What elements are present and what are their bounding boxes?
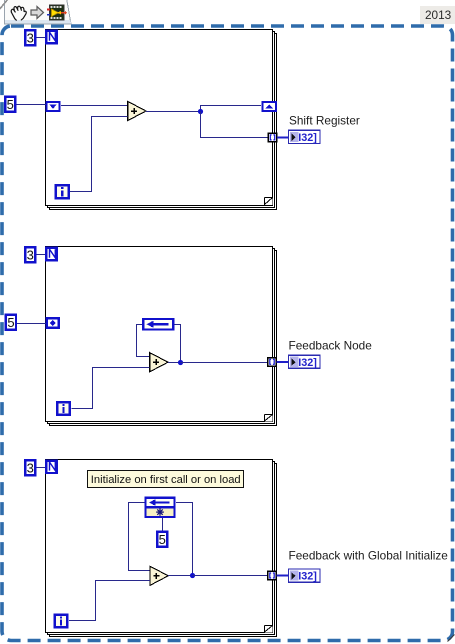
svg-text:3: 3 xyxy=(27,248,34,263)
page curl corner xyxy=(0,0,8,10)
indicator I32 Shift Register xyxy=(289,130,321,144)
feedback node with initializer (loop 3) xyxy=(144,497,175,519)
output tunnel (loop 3) xyxy=(268,571,277,580)
add function (loop 1) xyxy=(128,101,146,120)
wire 3 to N (loop 3) xyxy=(37,467,46,469)
svg-text:I32]: I32] xyxy=(298,571,317,583)
free label Initialize on first call or on load xyxy=(88,471,244,488)
shift register right terminal (loop 1) xyxy=(261,101,277,112)
output tunnel (loop 2) xyxy=(268,358,277,367)
svg-text:Initialize on first call or on: Initialize on first call or on load xyxy=(91,474,241,486)
svg-text:Feedback Node: Feedback Node xyxy=(289,339,373,353)
wire junction to tunnel (loop 1) xyxy=(201,112,269,138)
wire 5 to shift register left (loop 1) xyxy=(17,104,47,106)
wire add output to junction (loop 2) xyxy=(168,362,181,364)
for-loop 2 resize dog-ear xyxy=(265,415,273,422)
constant 5 (loop 3) xyxy=(156,531,168,548)
wire feedback node output to add (loop 2) xyxy=(137,325,151,357)
constant 5 (loop 1) xyxy=(4,96,16,113)
count terminal N (loop 1) xyxy=(45,30,58,45)
wire junction up to feedback node (loop 3) xyxy=(176,503,193,576)
constant 3 (loop 1) xyxy=(24,29,36,46)
VI icon xyxy=(47,5,67,20)
junction dot (loop 1) xyxy=(198,109,203,114)
toolbar background xyxy=(5,0,72,24)
wire 5 to initializer tunnel (loop 2) xyxy=(17,323,46,325)
add function (loop 3) xyxy=(150,566,168,585)
selection corner mark bottom-right xyxy=(448,635,455,642)
iteration terminal i (loop 2) xyxy=(56,401,71,416)
wire 3 to N (loop 1) xyxy=(37,37,46,39)
junction dot (loop 3) xyxy=(190,573,195,578)
indicator I32 Feedback Node xyxy=(289,355,321,369)
svg-text:Shift Register: Shift Register xyxy=(289,114,360,128)
wire junction to tunnel (loop 3) xyxy=(193,575,269,577)
count terminal N (loop 3) xyxy=(45,460,58,475)
svg-text:I32]: I32] xyxy=(298,357,317,369)
wire junction to tunnel (loop 2) xyxy=(181,362,269,364)
indicator I32 Feedback with Global Initialize xyxy=(289,569,321,583)
iteration terminal i (loop 3) xyxy=(53,613,68,628)
junction dot (loop 2) xyxy=(178,360,183,365)
svg-text:3: 3 xyxy=(27,31,34,46)
feedback initializer tunnel on border (loop 2) xyxy=(46,317,60,329)
wire i to add (loop 3) xyxy=(69,581,150,621)
feedback node (loop 2) xyxy=(142,318,174,331)
for-loop 3 resize dog-ear xyxy=(265,626,273,633)
svg-text:I32]: I32] xyxy=(298,132,317,144)
run arrow icon xyxy=(31,7,44,19)
iteration terminal i (loop 1) xyxy=(55,184,70,199)
wire junction up to feedback node (loop 2) xyxy=(175,325,181,363)
wire i to add (loop 1) xyxy=(70,117,128,192)
wire add output to junction (loop 1) xyxy=(146,106,261,112)
constant 5 (loop 2) xyxy=(5,314,17,331)
svg-text:5: 5 xyxy=(7,315,14,330)
add function (loop 2) xyxy=(150,353,168,372)
wire 3 to N (loop 2) xyxy=(37,254,46,256)
shift register left terminal (loop 1) xyxy=(46,101,61,112)
count terminal N (loop 2) xyxy=(45,247,58,262)
svg-text:Feedback with Global Initializ: Feedback with Global Initialize xyxy=(289,549,449,563)
svg-text:2013: 2013 xyxy=(425,8,452,22)
svg-text:3: 3 xyxy=(27,461,34,476)
constant 3 (loop 2) xyxy=(24,246,36,263)
wire i to add (loop 2) xyxy=(71,368,149,409)
year label 2013 xyxy=(420,6,455,24)
constant 3 (loop 3) xyxy=(24,459,36,476)
for-loop 1 border xyxy=(46,30,277,210)
wire tunnel to indicator (loop 3) xyxy=(277,575,290,577)
wire tunnel to indicator (loop 2) xyxy=(277,361,290,363)
for-loop 3 border xyxy=(46,460,277,637)
wire feedback node output to add (loop 3) xyxy=(129,503,151,571)
svg-text:5: 5 xyxy=(7,97,14,112)
hand tool icon xyxy=(11,6,26,20)
output tunnel (loop 1) xyxy=(268,133,277,142)
wire initializer to constant 5 (loop 3) xyxy=(162,518,164,531)
wire add output to junction (loop 3) xyxy=(168,575,192,577)
for-loop 1 resize dog-ear xyxy=(265,198,273,206)
svg-text:5: 5 xyxy=(159,532,166,547)
wire tunnel to indicator (loop 1) xyxy=(277,137,289,139)
wire shift register left to add (loop 1) xyxy=(61,105,128,107)
for-loop 2 border xyxy=(46,247,277,426)
